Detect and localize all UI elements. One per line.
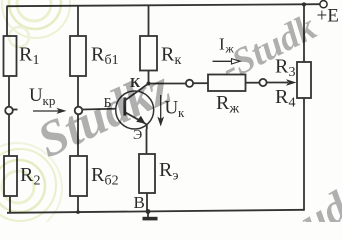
label Uкр xyxy=(29,85,55,108)
svg-text:R: R xyxy=(216,92,230,114)
svg-text:3: 3 xyxy=(289,65,296,80)
svg-text:R: R xyxy=(159,159,173,181)
wire: left vertical R1 to node xyxy=(8,76,10,107)
wire: middle vertical upper xyxy=(77,6,79,36)
svg-text:R: R xyxy=(91,164,105,186)
wire: base lead xyxy=(82,109,124,110)
svg-text:R: R xyxy=(275,86,289,108)
resistor Rж (horizontal) xyxy=(208,75,246,92)
label R1 xyxy=(19,44,40,69)
wire: pot to bottom rail xyxy=(303,98,305,211)
wire: Rэ to bottom rail xyxy=(146,193,148,211)
resistor Rэ xyxy=(139,154,155,193)
node circle middle (base divider) xyxy=(75,107,83,115)
wire: Rж to right circle xyxy=(246,82,260,84)
junction dot top rail right xyxy=(302,2,306,6)
wire: bottom rail xyxy=(7,210,304,213)
wire: left node to R2 xyxy=(8,114,10,156)
wire: collector node to circle xyxy=(149,83,187,85)
wire: circle to wiper arrow xyxy=(267,82,288,84)
wire: top rail xyxy=(7,4,321,6)
ground bar xyxy=(143,217,158,221)
label R2 xyxy=(20,164,41,189)
svg-text:б1: б1 xyxy=(105,53,119,68)
label Rб1 xyxy=(91,44,119,69)
wire: Rк to collector node xyxy=(148,71,150,84)
label Uк xyxy=(165,98,186,121)
svg-text:к: к xyxy=(178,105,185,120)
transistor base bar xyxy=(123,97,126,115)
resistor Rб2 xyxy=(70,156,87,196)
wire: node to Rб2 xyxy=(77,114,79,156)
transistor VT circle xyxy=(116,91,154,129)
wire: R2 to bottom rail xyxy=(9,196,11,213)
wire: stub right of left node xyxy=(13,109,18,111)
wire: left vertical upper xyxy=(6,6,8,36)
terminal circle +E xyxy=(320,1,327,8)
label R4 xyxy=(275,86,296,111)
label R3 xyxy=(275,56,296,81)
wire: Rб2 to bottom rail xyxy=(77,196,79,212)
svg-text:R: R xyxy=(91,44,105,66)
node circle left (input) xyxy=(5,107,13,115)
watermark arcs top-left xyxy=(2,0,70,47)
label Rк xyxy=(161,44,182,69)
resistor R3/R4 potentiometer body xyxy=(297,62,311,98)
arrow potentiometer wiper xyxy=(286,79,297,86)
svg-text:4: 4 xyxy=(289,96,296,111)
node circle left of Rж xyxy=(186,80,193,87)
ground stub xyxy=(147,211,149,217)
svg-text:э: э xyxy=(173,169,179,184)
wire: emitter to Rэ xyxy=(146,129,148,154)
junction dot collector node xyxy=(147,82,151,86)
svg-text:б2: б2 xyxy=(105,174,119,189)
resistor Rк xyxy=(140,36,157,71)
label Iж xyxy=(219,35,235,56)
label Rж xyxy=(216,92,240,117)
transistor collector lead xyxy=(126,84,149,101)
resistor R2 xyxy=(4,156,17,196)
svg-text:U: U xyxy=(29,85,43,106)
wire: circle to Rж xyxy=(193,82,208,84)
node circle right of Rж xyxy=(259,79,266,86)
svg-text:R: R xyxy=(161,44,175,66)
svg-text:к: к xyxy=(175,53,182,68)
transistor emitter lead xyxy=(126,113,147,130)
label Rб2 xyxy=(91,164,119,189)
wire: right branch upper xyxy=(303,4,305,62)
wire: Rб1 to node xyxy=(77,76,79,107)
wire: Rк vertical upper xyxy=(148,5,150,36)
arrow Uкр xyxy=(33,110,60,112)
junction dot bottom rail at Rб2 xyxy=(76,210,80,214)
svg-text:Э: Э xyxy=(133,128,142,143)
label Rэ xyxy=(159,159,179,184)
watermark arcs bottom-left xyxy=(0,143,62,233)
svg-text:1: 1 xyxy=(33,53,40,68)
arrow Iж (open head) xyxy=(213,59,241,64)
svg-text:ж: ж xyxy=(229,102,240,117)
svg-text:В: В xyxy=(134,193,145,212)
emitter arrow head xyxy=(136,116,145,124)
junction dot bottom rail at ground xyxy=(146,209,151,214)
resistor Rб1 xyxy=(70,36,86,76)
svg-text:+E: +E xyxy=(317,6,339,27)
arrow Uк (down) xyxy=(160,95,162,121)
resistor R1 xyxy=(4,36,17,76)
